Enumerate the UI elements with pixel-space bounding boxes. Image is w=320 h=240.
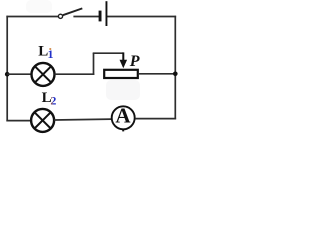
wire: rheostat to right rail	[139, 73, 175, 75]
rheostat wiper arrowhead	[120, 60, 128, 68]
svg-text:A: A	[115, 103, 131, 127]
wire: riser up	[93, 53, 95, 75]
wire: ammeter to right rail	[135, 118, 176, 120]
wire: left rail	[6, 16, 8, 122]
faint smudge top area	[26, 0, 52, 13]
switch S: pivot circle	[58, 14, 62, 18]
battery: short thick negative plate	[99, 11, 102, 22]
lamp L2	[31, 109, 54, 132]
lamp L1	[32, 63, 55, 86]
faint smudge under rheostat	[106, 80, 140, 100]
wire: right rail	[174, 16, 176, 120]
node: junction dot on right rail	[173, 72, 178, 77]
wire: left rail bottom to lamp L2	[6, 120, 31, 122]
battery: long thin positive plate	[106, 1, 108, 26]
wire: top-left horizontal (rail top to switch)	[6, 16, 58, 18]
rheostat wiper arrow shaft	[122, 52, 124, 61]
wire: lamp L2 to ammeter	[54, 118, 112, 121]
node: junction dot on left rail	[5, 72, 10, 77]
wire: lamp L1 to riser	[55, 73, 95, 75]
ammeter A	[112, 103, 135, 131]
switch S: blade	[63, 8, 83, 15]
wire: riser top horizontal to wiper	[93, 52, 124, 54]
svg-text:P: P	[129, 53, 140, 70]
wire: battery to top-right corner	[107, 16, 177, 18]
wire: switch to battery	[73, 16, 99, 18]
rheostat body R	[104, 70, 138, 78]
wire: left rail to lamp L1	[7, 73, 31, 75]
svg-text:2: 2	[50, 93, 56, 107]
